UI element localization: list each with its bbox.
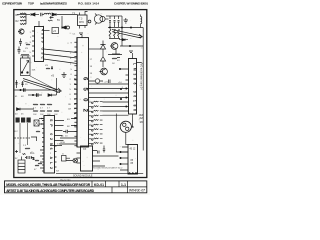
bus vertical tap: [116, 114, 128, 153]
svg-text:SP 0256-AL2: SP 0256-AL2: [49, 119, 53, 169]
svg-text:10K: 10K: [33, 114, 37, 116]
svg-text:SOUND MODULE: SOUND MODULE: [73, 175, 93, 178]
svg-text:ARTIST D-60 TALKING BLACKBOAR: ARTIST D-60 TALKING BLACKBOARD COMPUTER …: [6, 189, 95, 193]
U1 right pin labels: [90, 59, 93, 75]
title block row 2 text: [6, 189, 145, 193]
svg-text:9: 9: [71, 42, 73, 44]
svg-text:5: 5: [71, 69, 73, 71]
svg-text:4.7: 4.7: [33, 108, 37, 110]
resistor R5: [45, 65, 53, 70]
battery B1: [15, 157, 25, 174]
LED D3: [87, 20, 91, 23]
svg-text:XX: XX: [45, 65, 48, 67]
svg-text:XX: XX: [56, 171, 59, 173]
title block row 1 text: [6, 183, 126, 187]
svg-text:2.2: 2.2: [140, 118, 144, 120]
svg-text:+21: +21: [104, 82, 108, 84]
wire top right rail: [108, 27, 143, 29]
svg-text:3: 3: [30, 42, 32, 44]
svg-text:B1: B1: [67, 119, 70, 121]
cpu U1 6502: [73, 33, 89, 147]
data bus wires: [89, 84, 129, 115]
resistor array lower-left of cpu: [33, 104, 59, 116]
capacitor C7: [37, 93, 39, 97]
node A: [121, 27, 122, 28]
svg-text:MODEL: KD1000, KD1050, THIN SL: MODEL: KD1000, KD1050, THIN SLAB TRANSDU…: [6, 183, 91, 187]
wire bottom rails: [56, 173, 143, 175]
small parts left of U2: [30, 120, 42, 164]
svg-text:45: 45: [21, 114, 24, 116]
svg-text:K2: K2: [117, 60, 120, 62]
wire: [61, 16, 63, 28]
speaker SP1: [120, 114, 133, 145]
header copyright text: [2, 1, 148, 5]
amp box U6: [50, 144, 119, 172]
diode D1: [31, 13, 39, 16]
capacitor C12: [103, 146, 105, 153]
svg-text:6502: 6502: [82, 77, 88, 113]
svg-text:1: 1: [30, 32, 32, 34]
svg-text:C1: C1: [73, 34, 77, 36]
svg-text:4.7: 4.7: [40, 108, 44, 110]
svg-text:COPYRIGHT © 1979: COPYRIGHT © 1979: [2, 1, 22, 5]
wire: [20, 123, 28, 153]
svg-text:SOUND MODULE ASSY No 2: SOUND MODULE ASSY No 2: [93, 166, 123, 169]
svg-text:3: 3: [70, 58, 72, 60]
svg-text:CASPER, WYOMING 82601: CASPER, WYOMING 82601: [114, 1, 148, 5]
svg-text:1.5: 1.5: [140, 122, 144, 124]
svg-text:18: 18: [90, 66, 93, 68]
svg-text:XX: XX: [25, 48, 28, 50]
cable bundle (to display): [112, 30, 142, 39]
resistor network RN1 (top left column): [16, 13, 27, 25]
svg-text:19: 19: [90, 73, 93, 75]
svg-text:B2: B2: [67, 126, 70, 128]
diode D6: [89, 41, 106, 57]
svg-text:6: 6: [70, 94, 72, 96]
svg-text:5V: 5V: [57, 19, 60, 22]
svg-text:8.3: 8.3: [140, 115, 144, 117]
svg-text:+5: +5: [51, 74, 55, 78]
ground: [62, 72, 67, 78]
pilot lamp DS1: [70, 158, 78, 163]
svg-text:KD-01: KD-01: [94, 183, 104, 187]
svg-text:MHz: MHz: [79, 21, 85, 24]
svg-text:7: 7: [70, 99, 72, 101]
svg-text:2: 2: [70, 53, 72, 55]
labels left of U4: [118, 82, 124, 89]
resistor R21: [34, 160, 39, 171]
svg-text:2: 2: [70, 79, 72, 81]
transistor Q2: [100, 68, 108, 75]
svg-text:45 12: 45 12: [130, 149, 136, 151]
svg-text:5: 5: [70, 89, 72, 91]
svg-text:LM386 30186: LM386 30186: [132, 63, 136, 111]
power module PS1: [120, 145, 138, 175]
wire dashed boundary: [14, 137, 30, 139]
transistor Q4: [89, 79, 111, 84]
capacitor C1: [41, 13, 45, 16]
svg-text:1: 1: [70, 84, 72, 86]
svg-text:40: 40: [15, 114, 18, 116]
svg-text:5: 5: [30, 52, 32, 54]
U1 left pins: [60, 42, 77, 145]
transducer SP2 (top): [94, 14, 105, 25]
resistor R9: [108, 55, 122, 66]
svg-text:10: 10: [23, 51, 26, 53]
svg-text:2: 2: [30, 37, 32, 39]
diode D5: [119, 39, 128, 41]
RC network top right: [105, 16, 122, 39]
svg-text:88: 88: [131, 160, 134, 162]
wire mid left horizontal: [14, 88, 56, 97]
svg-text:8.2: 8.2: [15, 131, 19, 133]
diode D7: [100, 57, 105, 68]
oscillator IC U3: [30, 21, 78, 64]
wire top chain: [17, 14, 30, 16]
svg-text:XX: XX: [83, 148, 87, 151]
capacitor C9: [61, 130, 70, 144]
svg-text:+: +: [19, 83, 21, 85]
diode D9: [15, 108, 34, 116]
svg-text:R2: R2: [16, 20, 20, 23]
wire: [120, 28, 143, 47]
diode D4 with indicator: [62, 26, 70, 29]
diode D2: [52, 13, 78, 16]
svg-text:25: 25: [25, 84, 28, 86]
svg-text:by BOWMAR SERVICES: by BOWMAR SERVICES: [40, 1, 67, 5]
svg-text:TOP: TOP: [28, 1, 34, 5]
title block: [5, 181, 147, 193]
svg-text:9V: 9V: [15, 158, 18, 160]
U1 pin arrows: [74, 78, 77, 126]
labels right of U4: [140, 115, 144, 124]
svg-text:47: 47: [34, 169, 37, 171]
ground: [124, 18, 129, 23]
resistor R22: [23, 154, 26, 155]
resistor R20: [23, 145, 30, 149]
svg-text:R-G: R-G: [30, 152, 35, 155]
connector pins with resistors (right of U1 lower): [89, 101, 103, 145]
dark boxes row (lower left): [16, 118, 31, 123]
capacitor C11: [98, 151, 100, 154]
svg-text:12: 12: [68, 109, 71, 111]
svg-text:4.7: 4.7: [47, 108, 51, 110]
U1 right pin wire: [89, 48, 101, 50]
speech IC U2: [39, 116, 64, 174]
svg-text:48: 48: [21, 96, 24, 98]
svg-text:1-1: 1-1: [121, 183, 126, 187]
inductor L2: [141, 15, 142, 28]
wire: [56, 78, 58, 95]
svg-text:10: 10: [65, 136, 68, 138]
svg-text:+5: +5: [53, 29, 57, 33]
wire right rail vertical: [142, 28, 144, 151]
svg-text:41: 41: [15, 96, 18, 98]
svg-text:4: 4: [70, 64, 72, 66]
small box U5: [52, 28, 59, 34]
inductor L1: [44, 13, 51, 14]
relay K1: [21, 54, 31, 75]
svg-text:6: 6: [71, 74, 73, 76]
capacitor C8 (left edge): [15, 80, 28, 88]
cable bundle 2: [23, 76, 61, 93]
transistor Q3: [110, 43, 120, 54]
svg-text:10K: 10K: [32, 70, 36, 72]
svg-text:P.O. BOX 1414: P.O. BOX 1414: [78, 1, 99, 5]
svg-text:17: 17: [90, 59, 93, 61]
capacitor C4: [19, 39, 28, 47]
svg-text:2.2: 2.2: [23, 145, 27, 147]
border frame: [14, 10, 147, 178]
capacitor C2: [48, 16, 54, 21]
capacitor C10: [25, 156, 33, 159]
diode D8: [48, 94, 52, 97]
transistor Q1: [18, 29, 24, 34]
capacitor C5: [18, 44, 31, 54]
component box D10: [62, 154, 71, 162]
svg-text:W04/3c-07: W04/3c-07: [129, 189, 145, 193]
U1 pin numbers: [67, 42, 73, 128]
svg-text:88: 88: [131, 163, 134, 165]
crystal Y1: [72, 12, 88, 29]
svg-text:I/O audio board conn 14: I/O audio board conn 14: [139, 64, 142, 90]
audio IC U4: [119, 51, 142, 114]
capacitor C6: [24, 88, 26, 92]
svg-text:1K: 1K: [112, 63, 115, 65]
